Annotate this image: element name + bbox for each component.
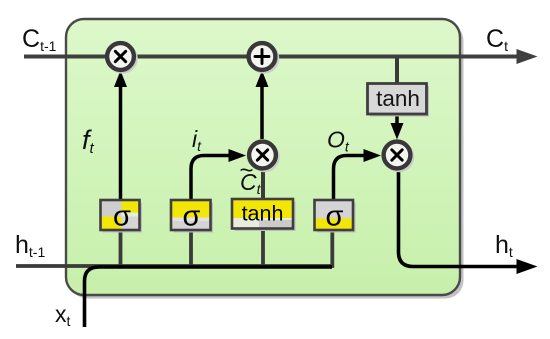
- tanh activation box: [368, 84, 427, 115]
- wire: i_t gate output curving to multiply: [191, 156, 229, 201]
- gate sigma3 (output) shadow: [317, 203, 356, 233]
- svg-text:ht: ht: [495, 231, 513, 260]
- svg-text:tanh: tanh: [242, 202, 284, 226]
- wire: f_t gate output up to multiply: [119, 86, 123, 199]
- cell body shadow: [70, 23, 464, 299]
- wire: tanh box down to multiply (arrow): [395, 114, 399, 124]
- svg-text:σ: σ: [183, 201, 201, 233]
- op multiply (input): [249, 142, 276, 169]
- cell body (LSTM block): [66, 19, 460, 295]
- gate sigma2 (input) shadow: [174, 203, 214, 233]
- wire: multiply up to add (arrow): [260, 86, 264, 139]
- wire: stem sigma1 to rail: [119, 230, 123, 265]
- svg-text:Ct-1: Ct-1: [22, 25, 57, 54]
- wire: x_t input (black, curves onto rail): [85, 267, 333, 327]
- wire: O_t gate output curving to multiply: [334, 156, 365, 201]
- wire: bottom h line (h_{t-1} input rail): [16, 230, 332, 266]
- svg-text:ht-1: ht-1: [15, 231, 45, 260]
- wire: candidate C~ stem (tanh gate up to multiply): [261, 168, 265, 200]
- gate tanh (candidate) shadow: [235, 202, 296, 232]
- wire: stem tanh-gate to rail: [261, 229, 265, 266]
- gate sigma3 (output gate): [315, 200, 354, 233]
- svg-text:σ: σ: [113, 201, 131, 233]
- svg-text:xt: xt: [55, 301, 71, 329]
- op multiply (forget): [107, 43, 134, 70]
- op add: [249, 43, 276, 70]
- svg-text:~: ~: [240, 157, 254, 184]
- svg-text:σ: σ: [326, 201, 344, 233]
- wire: C line down into tanh box: [395, 58, 399, 83]
- op multiply (output) shadow: [384, 142, 415, 173]
- gate sigma2 (input gate): [171, 200, 211, 233]
- op add shadow: [249, 43, 280, 74]
- gate sigma1 (forget) shadow: [103, 203, 142, 233]
- op multiply (output): [384, 142, 411, 169]
- tanh activation box shadow: [370, 86, 429, 117]
- svg-text:Ct: Ct: [486, 25, 508, 54]
- arrowhead C_t output: [517, 49, 538, 64]
- wire: stem sigma2 to rail: [189, 230, 193, 265]
- wire: cell-state line C (top horizontal): [24, 55, 519, 59]
- op multiply (forget) shadow: [107, 43, 138, 74]
- gate sigma1 (forget gate): [101, 200, 140, 233]
- op multiply (input) shadow: [249, 142, 280, 173]
- gate tanh (candidate): [232, 199, 293, 229]
- svg-text:tanh: tanh: [376, 86, 420, 111]
- wire: h_t output (from multiply, down and right): [399, 170, 519, 267]
